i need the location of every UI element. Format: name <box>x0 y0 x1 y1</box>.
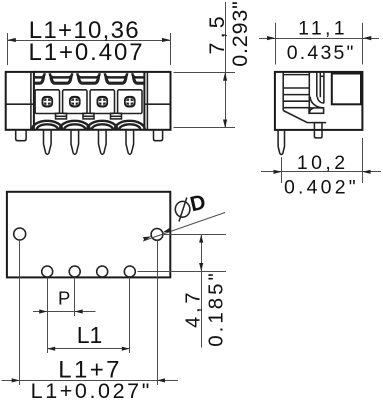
svg-text:0.402": 0.402" <box>284 177 359 199</box>
svg-text:0.435": 0.435" <box>287 42 356 64</box>
svg-text:7,5: 7,5 <box>205 12 229 55</box>
svg-text:11,1: 11,1 <box>298 18 348 40</box>
svg-text:L1+0.027": L1+0.027" <box>31 379 152 400</box>
svg-text:P: P <box>58 288 70 309</box>
svg-text:L1+0.407: L1+0.407 <box>29 39 145 66</box>
svg-text:0.185": 0.185" <box>205 270 228 347</box>
svg-text:L1: L1 <box>77 322 103 348</box>
svg-text:10,2: 10,2 <box>297 152 349 174</box>
svg-text:0.293": 0.293" <box>228 0 252 66</box>
svg-text:4,7: 4,7 <box>182 289 204 328</box>
